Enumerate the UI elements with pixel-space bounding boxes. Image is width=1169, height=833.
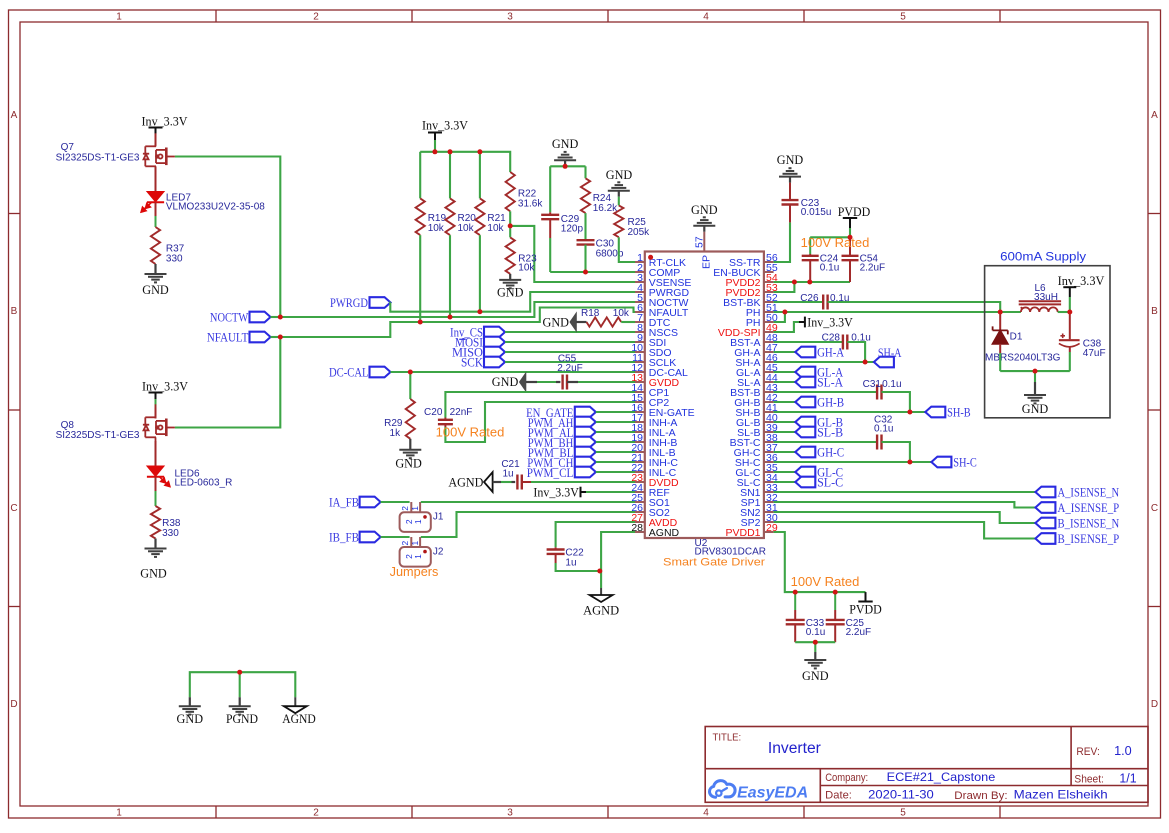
wire [280, 302, 635, 317]
wire [578, 381, 635, 383]
svg-text:1: 1 [116, 808, 122, 819]
wire [774, 431, 796, 433]
svg-text:Inverter: Inverter [768, 740, 821, 757]
resistor R24 [584, 166, 586, 178]
capacitor C25 [834, 592, 836, 610]
jumper J1 [400, 512, 431, 532]
svg-text:A_ISENSE_P: A_ISENSE_P [1058, 500, 1120, 515]
pin-1 marker U2 [648, 255, 653, 260]
pin 2 COMP (U2) [635, 271, 645, 273]
pin 44 SL-A (U2) [764, 381, 774, 383]
wire [549, 238, 551, 272]
svg-text:ECE#21_Capstone: ECE#21_Capstone [887, 770, 996, 784]
ground GND (R23) [509, 274, 511, 280]
svg-text:PVDD: PVDD [838, 204, 871, 219]
svg-text:GND: GND [543, 314, 570, 329]
svg-text:2.2uF: 2.2uF [846, 627, 872, 638]
wire [774, 222, 790, 262]
wire [596, 451, 635, 453]
wire [596, 461, 635, 463]
wire [774, 351, 796, 353]
svg-text:GND: GND [691, 202, 718, 217]
pin 29 PVDD1 (U2) [764, 531, 774, 533]
svg-text:SCK: SCK [461, 354, 484, 369]
pin 19 INH-B (U2) [635, 441, 645, 443]
svg-text:33uH: 33uH [1034, 292, 1058, 303]
frame column numbers [116, 12, 906, 819]
wire [828, 302, 1001, 312]
pin 39 SL-B (U2) [764, 431, 774, 433]
pin 14 CP1 (U2) [635, 391, 645, 393]
wire [155, 491, 157, 506]
ground AGND (C22) [600, 588, 602, 595]
wire [420, 152, 510, 172]
capacitor C30 [577, 239, 595, 241]
pin 42 GH-B (U2) [764, 401, 774, 403]
svg-text:Inv_3.3V: Inv_3.3V [142, 379, 189, 394]
svg-text:J2: J2 [433, 546, 444, 557]
resistor R37 [151, 227, 160, 264]
capacitor C54 [849, 237, 851, 256]
wire [601, 532, 635, 588]
wire [795, 641, 835, 643]
wire [550, 165, 585, 167]
pin 56 SS-TR (U2) [764, 261, 774, 263]
svg-text:2020-11-30: 2020-11-30 [868, 787, 934, 801]
svg-text:SH-C: SH-C [953, 454, 977, 469]
wire [774, 341, 843, 343]
wire [381, 536, 410, 538]
pin 24 REF (U2) [635, 491, 645, 493]
junction (supply GND) [1033, 369, 1038, 374]
svg-text:2.2uF: 2.2uF [860, 263, 886, 274]
pin 21 INH-C (U2) [635, 461, 645, 463]
svg-text:SL-B: SL-B [817, 424, 843, 439]
svg-text:3: 3 [507, 808, 513, 819]
power flag Inv_3.3V (VDD-SPI) [799, 321, 805, 323]
wire [155, 399, 157, 408]
wire [882, 442, 910, 462]
pin 3 VSENSE (U2) [635, 281, 645, 283]
svg-text:5: 5 [900, 12, 906, 23]
svg-text:TITLE:: TITLE: [713, 732, 742, 744]
net flag B_ISENSE_N [1035, 518, 1055, 529]
svg-text:C: C [1151, 503, 1158, 514]
wire [774, 301, 824, 303]
wire [1069, 352, 1071, 371]
junction (GND rail) [563, 164, 568, 169]
wire [550, 271, 635, 273]
wire [445, 392, 635, 418]
transistor Q8 [143, 404, 175, 442]
svg-text:C: C [10, 503, 17, 514]
junction (C33) [793, 590, 798, 595]
wire [814, 642, 816, 652]
junction (C25) [833, 590, 838, 595]
resistor R19 [416, 198, 425, 235]
svg-text:Smart Gate Driver: Smart Gate Driver [663, 557, 765, 569]
capacitor C20 [444, 418, 446, 420]
svg-text:Q7: Q7 [61, 142, 75, 153]
pin 57 EP (U2) [703, 232, 705, 252]
junction (ground trio) [237, 670, 242, 675]
svg-text:PVDD: PVDD [849, 602, 882, 617]
pin 35 GL-C (U2) [764, 471, 774, 473]
svg-text:Date:: Date: [825, 789, 852, 801]
wire [621, 321, 635, 323]
jumper J2 [400, 547, 431, 567]
svg-text:Company:: Company: [825, 772, 868, 784]
wire [505, 331, 635, 333]
pin 8 NSCS (U2) [635, 331, 645, 333]
wire [390, 292, 635, 312]
svg-text:Inv_3.3V: Inv_3.3V [422, 118, 469, 133]
svg-text:A: A [11, 110, 18, 121]
junction (NFAULT) [278, 335, 283, 340]
svg-text:1/1: 1/1 [1119, 772, 1136, 786]
ground GND (R37) [154, 264, 156, 274]
svg-text:1u: 1u [502, 469, 513, 480]
ground PGND (trio) [239, 697, 241, 706]
svg-text:22nF: 22nF [450, 407, 473, 418]
svg-text:SL-C: SL-C [817, 474, 843, 489]
svg-text:Inv_3.3V: Inv_3.3V [533, 485, 579, 500]
svg-text:C28: C28 [822, 333, 841, 344]
net flag SL-A [795, 377, 815, 388]
wire [810, 236, 850, 238]
wire [774, 471, 796, 473]
svg-text:PWM_CL: PWM_CL [527, 465, 574, 480]
svg-text:330: 330 [166, 254, 183, 265]
diode D1 [999, 312, 1001, 330]
wire [774, 411, 926, 413]
svg-text:0.1u: 0.1u [806, 627, 825, 638]
svg-text:AGND: AGND [649, 527, 680, 539]
pin 32 SP1 (U2) [764, 501, 774, 503]
svg-text:Sheet:: Sheet: [1074, 774, 1104, 786]
svg-text:GND: GND [142, 282, 169, 297]
wire [449, 152, 451, 199]
svg-text:GND: GND [552, 136, 579, 151]
svg-text:1: 1 [410, 506, 420, 511]
wire [774, 421, 796, 423]
wire [556, 563, 602, 571]
wire [774, 401, 796, 403]
wire [155, 216, 157, 227]
wire [409, 372, 411, 399]
resistor R29 [406, 399, 415, 439]
net flag GH-A [795, 347, 815, 358]
svg-text:IB_FB: IB_FB [329, 529, 359, 544]
junction (R21/PWRGD) [477, 309, 482, 314]
ground AGND (trio) [294, 697, 296, 706]
pin 47 GH-A (U2) [764, 351, 774, 353]
wire [774, 361, 874, 363]
wire [774, 312, 785, 322]
pin 10 SDO (U2) [635, 351, 645, 353]
LED LED7 [155, 167, 157, 192]
svg-text:B: B [1151, 306, 1158, 317]
pin 1 RT-CLK (U2) [635, 261, 645, 263]
resistor R21 [475, 198, 484, 235]
pin 33 SN1 (U2) [764, 491, 774, 493]
junction (NOCTW) [278, 315, 283, 320]
junction (SH-A) [863, 360, 868, 365]
wire [449, 235, 451, 317]
svg-text:5: 5 [900, 808, 906, 819]
svg-text:GH-C: GH-C [817, 444, 844, 459]
wire [596, 421, 635, 423]
junction (C22/AGND) [597, 569, 602, 574]
wire [1000, 370, 1070, 372]
junction (SH-B) [907, 410, 912, 415]
svg-text:D1: D1 [1010, 332, 1023, 343]
wire [847, 342, 865, 362]
svg-text:NFAULT: NFAULT [207, 329, 248, 344]
junction (SH-C) [907, 460, 912, 465]
pin 55 EN-BUCK (U2) [764, 271, 774, 273]
pin 28 AGND (U2) [635, 531, 645, 533]
capacitor C28 [842, 335, 844, 350]
wire [849, 228, 851, 237]
pin 37 GH-C (U2) [764, 451, 774, 453]
pin 30 SP2 (U2) [764, 521, 774, 523]
pin 18 INL-A (U2) [635, 431, 645, 433]
svg-text:1: 1 [410, 541, 420, 546]
wire [381, 501, 410, 503]
wire [419, 235, 421, 322]
svg-text:J1: J1 [433, 512, 444, 523]
wire [774, 491, 1036, 493]
net flag GL-C [795, 467, 815, 478]
svg-text:GND: GND [395, 456, 422, 471]
svg-text:1: 1 [116, 12, 122, 23]
svg-text:IA_FB: IA_FB [329, 494, 359, 509]
wire [479, 152, 481, 199]
net flag GL-B [795, 417, 815, 428]
ground GND (C33/C25) [814, 652, 816, 660]
svg-text:10k: 10k [518, 263, 535, 274]
pin 11 SCLK (U2) [635, 361, 645, 363]
svg-text:GND: GND [802, 668, 829, 683]
wire [239, 672, 241, 697]
svg-text:10k: 10k [487, 223, 504, 234]
wire [510, 226, 635, 282]
pin 12 DC-CAL (U2) [635, 371, 645, 373]
svg-text:DC-CAL: DC-CAL [329, 364, 369, 379]
svg-text:GND: GND [606, 167, 633, 182]
resistor R20 [445, 198, 454, 235]
pin 52 BST-BK (U2) [764, 301, 774, 303]
wire [999, 353, 1001, 371]
svg-text:2: 2 [313, 808, 319, 819]
svg-text:B_ISENSE_N: B_ISENSE_N [1058, 515, 1120, 530]
ground GND (R29) [409, 439, 411, 450]
svg-text:205k: 205k [628, 227, 651, 238]
junction (R19/NFAULT) [418, 320, 423, 325]
junction (PVDD2) [792, 280, 797, 285]
svg-text:Drawn By:: Drawn By: [954, 790, 1007, 802]
svg-text:57: 57 [694, 236, 706, 248]
title block [705, 727, 1148, 803]
wire [596, 441, 635, 443]
wire [271, 316, 281, 318]
svg-text:PWRGD: PWRGD [330, 295, 368, 310]
svg-text:330: 330 [162, 528, 179, 539]
junction (C24) [807, 280, 812, 285]
svg-text:GND: GND [497, 285, 524, 300]
svg-text:NOCTW: NOCTW [210, 309, 249, 324]
wire [479, 235, 481, 312]
junction (C30/COMP) [583, 270, 588, 275]
wire [596, 411, 635, 413]
net flag A_ISENSE_P [1035, 502, 1055, 513]
wire [882, 392, 910, 412]
svg-text:MBRS2040LT3G: MBRS2040LT3G [985, 353, 1061, 364]
pin 48 BST-A (U2) [764, 341, 774, 343]
svg-text:2: 2 [400, 506, 410, 511]
junction (PH) [782, 310, 787, 315]
resistor R25 [614, 205, 623, 237]
capacitor C31 [876, 385, 878, 400]
svg-text:AGND: AGND [448, 475, 483, 490]
wire [618, 197, 620, 206]
svg-text:Inv_3.3V: Inv_3.3V [1058, 273, 1105, 288]
frame row letters [10, 110, 1158, 710]
wire [774, 532, 866, 592]
wire [391, 371, 636, 373]
pin 41 SH-B (U2) [764, 411, 774, 413]
capacitor C33 [794, 592, 796, 610]
pin 26 SO2 (U2) [635, 511, 645, 513]
svg-text:1u: 1u [565, 558, 576, 569]
pin 22 INL-C (U2) [635, 471, 645, 473]
junction (rail/R21) [477, 149, 482, 154]
pin 20 INL-B (U2) [635, 451, 645, 453]
wire [505, 351, 635, 353]
svg-text:0.1u: 0.1u [882, 379, 901, 390]
power flag PVDD (bottom) [865, 592, 867, 601]
pin 7 DTC (U2) [635, 321, 645, 323]
svg-text:PGND: PGND [226, 711, 258, 726]
svg-text:4: 4 [703, 12, 709, 23]
wire [531, 481, 635, 483]
wire [155, 134, 157, 147]
svg-text:3: 3 [507, 12, 513, 23]
net flag SH-C [931, 457, 951, 468]
pin 50 PH (U2) [764, 321, 774, 323]
svg-text:100V Rated: 100V Rated [791, 574, 860, 589]
wire [774, 282, 795, 292]
svg-text:SL-A: SL-A [817, 374, 844, 389]
wire [619, 237, 635, 262]
wire [774, 441, 878, 443]
wire [584, 245, 586, 272]
net flag SL-C [795, 477, 815, 488]
pin 36 SH-C (U2) [764, 461, 774, 463]
pin 40 GL-B (U2) [764, 421, 774, 423]
wire [434, 140, 436, 152]
LED LED6 [155, 441, 157, 466]
junction (PVDD/C54) [848, 235, 853, 240]
wire [419, 152, 421, 199]
svg-text:Mazen Elsheikh: Mazen Elsheikh [1014, 787, 1108, 801]
svg-text:Jumpers: Jumpers [390, 564, 439, 579]
svg-text:D: D [1151, 699, 1158, 710]
wire [596, 471, 635, 473]
svg-text:SH-A: SH-A [878, 345, 902, 360]
wire [596, 431, 635, 433]
svg-text:1: 1 [413, 519, 423, 524]
pin 9 SDI (U2) [635, 341, 645, 343]
wire [421, 501, 635, 503]
svg-text:C31: C31 [863, 379, 882, 390]
junction (L6/C38/Inv_3.3V) [1067, 310, 1072, 315]
net flag A_ISENSE_N [1035, 487, 1055, 498]
ground GND (trio) [189, 697, 191, 706]
svg-text:D: D [10, 699, 17, 710]
svg-text:GND: GND [1022, 401, 1049, 416]
capacitor C26 [822, 295, 824, 310]
inductor L6 [1019, 300, 1061, 302]
svg-text:PVDD1: PVDD1 [725, 527, 760, 539]
pin 38 BST-C (U2) [764, 441, 774, 443]
svg-text:2.2uF: 2.2uF [557, 363, 583, 374]
svg-text:A: A [1151, 110, 1158, 121]
svg-text:28: 28 [631, 522, 643, 534]
wire [1058, 311, 1070, 313]
capacitor C21 [493, 481, 501, 483]
wire [774, 281, 850, 283]
pin 51 PH (U2) [764, 311, 774, 313]
svg-text:LED-0603_R: LED-0603_R [175, 478, 233, 489]
svg-text:GND: GND [492, 374, 519, 389]
capacitor C29 [549, 166, 551, 212]
capacitor C32 [876, 435, 878, 450]
wire [774, 311, 1021, 313]
svg-text:EP: EP [701, 255, 713, 269]
wire [774, 461, 932, 463]
wire [175, 157, 280, 318]
pin 31 SN2 (U2) [764, 511, 774, 513]
pin 45 GL-A (U2) [764, 371, 774, 373]
net flag GL-A [795, 367, 815, 378]
junction (DC-CAL/R29) [408, 370, 413, 375]
svg-text:C20: C20 [424, 407, 443, 418]
svg-text:AGND: AGND [282, 711, 316, 726]
pin 49 VDD-SPI (U2) [764, 331, 774, 333]
ground GND (supply) [1034, 382, 1036, 395]
net flag GH-C [795, 447, 815, 458]
logo EasyEDA [710, 781, 809, 802]
wire [556, 522, 635, 547]
svg-text:AGND: AGND [583, 603, 619, 618]
capacitor C23 [789, 205, 791, 223]
wire [774, 451, 796, 453]
resistor R23 [506, 237, 515, 274]
svg-text:Inv_3.3V: Inv_3.3V [142, 114, 189, 129]
ground GND (R38) [154, 539, 156, 549]
svg-text:GND: GND [140, 566, 167, 581]
pin 16 EN-GATE (U2) [635, 411, 645, 413]
junction (rail/power) [432, 149, 437, 154]
svg-text:2: 2 [313, 12, 319, 23]
wire [505, 361, 635, 363]
wire [774, 322, 799, 332]
pin 4 PWRGD (U2) [635, 291, 645, 293]
pin 23 DVDD (U2) [635, 481, 645, 483]
pin 27 AVDD (U2) [635, 521, 645, 523]
